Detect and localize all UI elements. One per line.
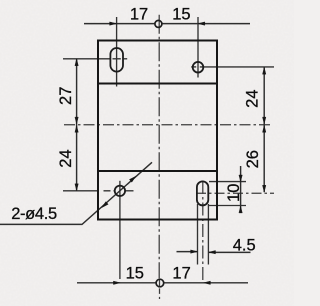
svg-text:24: 24	[57, 149, 75, 167]
svg-text:26: 26	[244, 150, 262, 168]
svg-text:17: 17	[172, 264, 190, 282]
svg-text:10: 10	[225, 184, 243, 202]
svg-text:15: 15	[172, 6, 190, 24]
svg-text:2-ø4.5: 2-ø4.5	[11, 205, 57, 223]
svg-text:4.5: 4.5	[233, 237, 256, 255]
svg-text:27: 27	[57, 87, 75, 105]
svg-text:24: 24	[243, 90, 261, 108]
svg-text:17: 17	[130, 6, 148, 24]
svg-text:15: 15	[126, 264, 144, 282]
